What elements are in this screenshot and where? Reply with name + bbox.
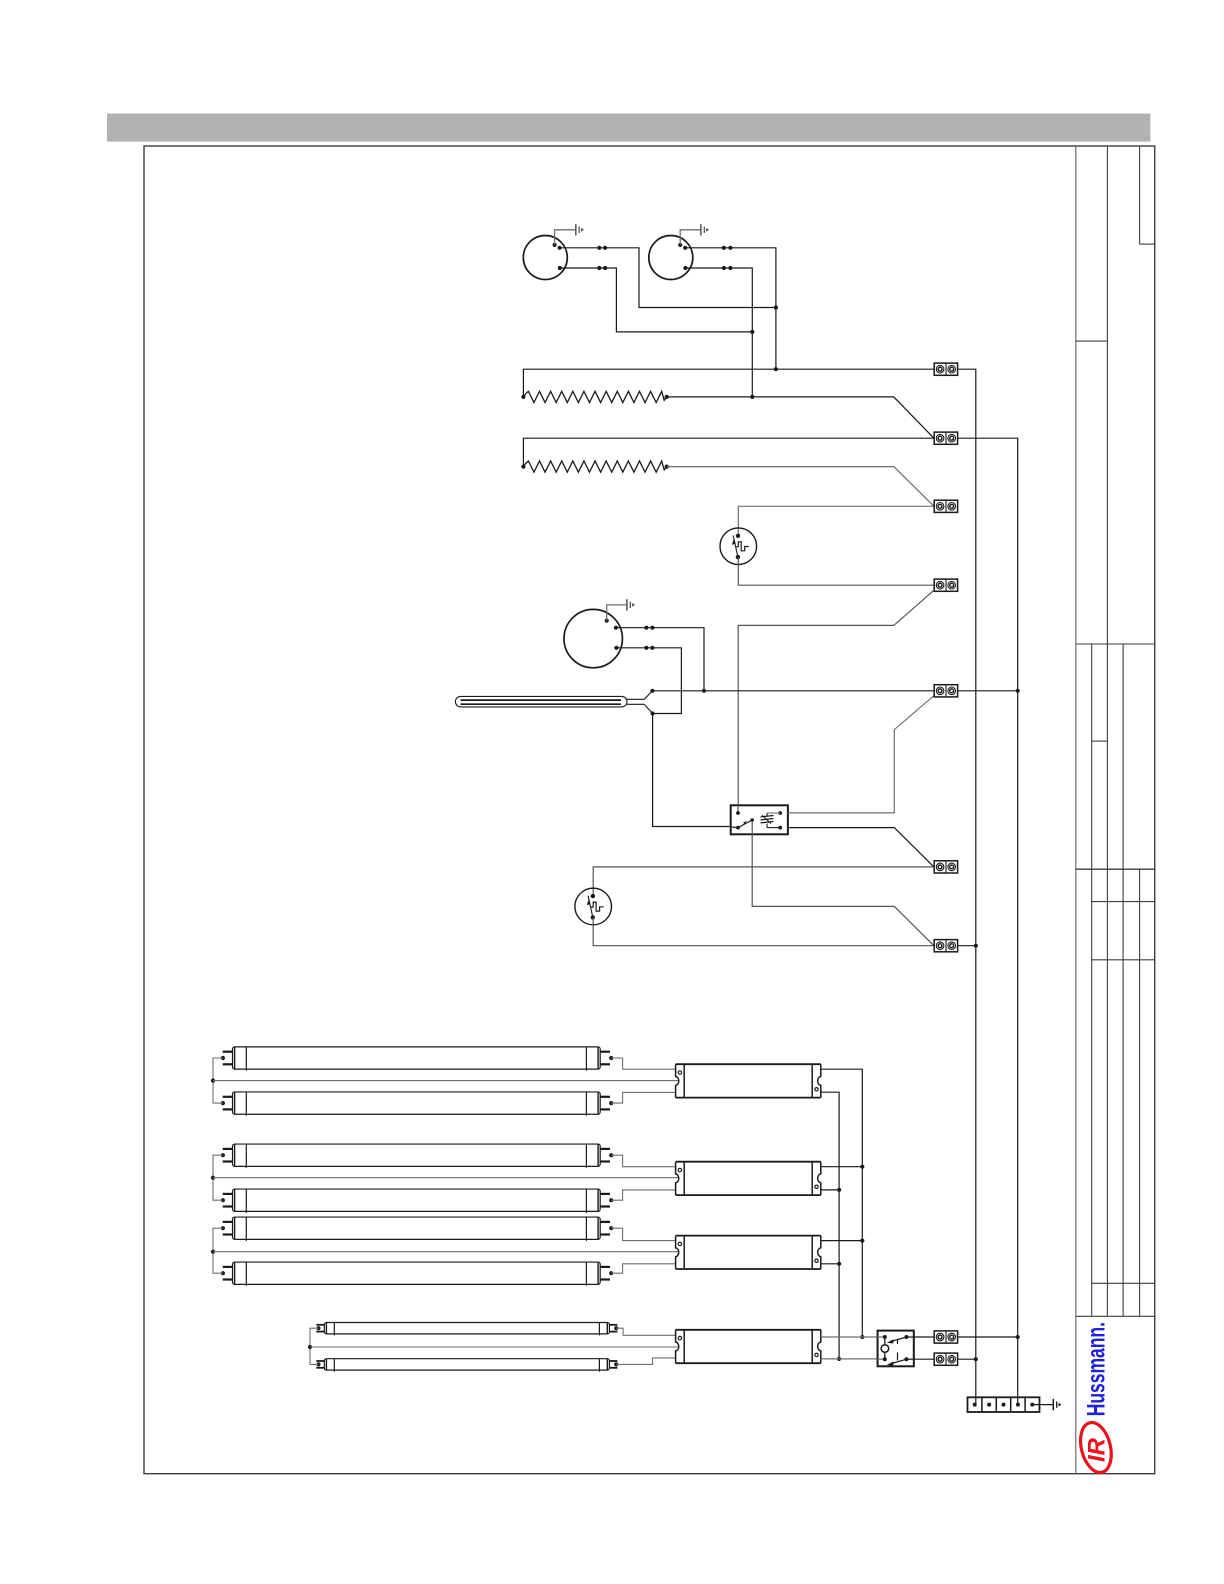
wire lamp pair 3 left bus to ballast 3 xyxy=(213,1251,678,1253)
wire lamp pair 2 left bus to ballast 2 xyxy=(213,1177,678,1179)
wire lamp 4 right to ballast 2 xyxy=(609,1190,675,1202)
wire M1 line1 xyxy=(558,246,776,308)
wire lamp pair 4 left jumper xyxy=(308,1326,321,1366)
ground symbol M3 xyxy=(627,599,635,610)
wire ballast B2 neutral xyxy=(821,1189,839,1191)
wire lamp 2 right to ballast 1 xyxy=(609,1092,675,1105)
relay K1 xyxy=(731,805,788,834)
bus wire B (TB2 feed) xyxy=(958,438,1020,1404)
fan motor M1 xyxy=(523,236,567,280)
wire M3 line2 xyxy=(614,646,681,714)
wire TB7 to bus A xyxy=(958,945,976,947)
wire K1 switch to TB7 xyxy=(752,822,934,946)
drawing border frame xyxy=(144,146,1155,1474)
ground symbol strip xyxy=(1053,1399,1061,1410)
fluorescent lamp LT1 xyxy=(223,1047,610,1071)
bus wire A (TB1 feed) xyxy=(958,369,978,1404)
wire TB9 to bus A xyxy=(958,1358,976,1360)
wire M2 line2 xyxy=(683,266,754,399)
wire TB8 to bus B xyxy=(958,1336,1018,1338)
wire M2 line1 xyxy=(683,246,778,372)
wire M1 line2 xyxy=(558,266,753,332)
wire M3 line1 xyxy=(614,626,706,693)
svg-text:Hussmann.: Hussmann. xyxy=(1081,1322,1110,1416)
wire K2 to TB8 xyxy=(914,1336,934,1338)
heater R1 element xyxy=(521,391,669,402)
wire lamp pair 4 left bus to ballast B4 xyxy=(310,1346,678,1348)
fluorescent lamp LT7 xyxy=(316,1323,617,1336)
wire sensor node to relay K1 switch xyxy=(653,714,731,827)
ground wire strip xyxy=(1032,1404,1053,1406)
thermostat T1 xyxy=(720,528,757,565)
ground symbol M2 xyxy=(701,224,709,235)
wire ballast B4 to relay K2 top xyxy=(821,1336,878,1338)
terminal block TB7 xyxy=(934,940,957,952)
wire TB5 to bus B xyxy=(958,689,1020,693)
wire T1 to TB3 xyxy=(738,506,934,536)
ground symbol M1 xyxy=(576,224,584,235)
wire ballast B1 to hot bus xyxy=(821,1069,865,1339)
heater R1 supply wire xyxy=(523,369,934,397)
terminal block TB1 xyxy=(934,363,957,375)
terminal block TB3 xyxy=(934,500,957,512)
heater R2 supply wire xyxy=(523,438,934,466)
wire T2 to TB7 xyxy=(593,917,934,945)
wire TB5 to K1 coil xyxy=(788,696,934,813)
wire lamp pair 2 left jumper xyxy=(211,1153,225,1202)
title block grid (rotated) xyxy=(1076,146,1155,1474)
temperature sensor bulb xyxy=(455,696,627,707)
fluorescent lamp LT6 xyxy=(223,1262,610,1286)
wire ballast B2 hot xyxy=(821,1166,863,1168)
ground wire M3 xyxy=(605,605,627,623)
wire lamp pair 3 left jumper xyxy=(211,1226,225,1275)
Hussmann logo text (rotated) xyxy=(1081,1322,1110,1416)
wire R2 to TB3 xyxy=(667,467,934,507)
wire R1 to TB2 xyxy=(667,397,934,438)
ballast B3 xyxy=(676,1236,821,1269)
wire lamp 3 right to ballast 2 xyxy=(609,1153,675,1167)
wire lamp pair 1 left bus to ballast 1 xyxy=(213,1080,678,1082)
ballast B2 xyxy=(676,1162,821,1195)
wire ballast B1 to neutral bus xyxy=(821,1092,841,1361)
wire ballast B3 neutral xyxy=(821,1263,839,1265)
terminal strip X1 xyxy=(968,1397,1040,1412)
wire ballast B4 to relay K2 bottom xyxy=(821,1358,878,1360)
fluorescent lamp LT2 xyxy=(223,1092,610,1116)
wire lamp LT7 right to ballast B4 xyxy=(614,1326,675,1335)
terminal block TB9 xyxy=(934,1353,957,1365)
fluorescent lamp LT8 xyxy=(316,1359,617,1372)
sensor top lead xyxy=(627,689,655,700)
wire lamp 5 right to ballast 3 xyxy=(609,1226,675,1241)
wire lamp 1 right to ballast 1 xyxy=(609,1056,675,1069)
ballast B1 xyxy=(676,1064,821,1097)
wire TB4 to relay K1 coil node xyxy=(738,590,934,813)
terminal block TB6 xyxy=(934,861,957,873)
terminal block TB5 xyxy=(934,685,957,697)
svg-text:IR: IR xyxy=(1084,1437,1111,1462)
thermostat T2 xyxy=(575,888,612,925)
ground wire M1 xyxy=(553,230,576,247)
relay K2 xyxy=(878,1331,914,1367)
wire T2 to TB6 xyxy=(593,867,934,896)
wire K1 to TB6 xyxy=(788,828,934,867)
fluorescent lamp LT5 xyxy=(223,1217,610,1241)
wire sensor node to TB5 xyxy=(652,690,934,692)
terminal block TB2 xyxy=(934,432,957,444)
page header gray bar xyxy=(107,114,1150,142)
wire K2 to TB9 xyxy=(914,1358,934,1360)
wire lamp pair 1 left jumper xyxy=(211,1056,225,1105)
sensor bottom lead xyxy=(627,704,655,715)
Ingersoll Rand IR logo xyxy=(1076,1419,1116,1476)
fluorescent lamp LT4 xyxy=(223,1189,610,1213)
fan motor M3 xyxy=(564,609,622,667)
wire lamp LT8 right to ballast B4 xyxy=(614,1358,675,1367)
wire ballast B3 hot xyxy=(821,1240,863,1242)
heater R2 element xyxy=(521,461,669,472)
wire lamp 6 right to ballast 3 xyxy=(609,1264,675,1275)
terminal block TB4 xyxy=(934,579,957,591)
wire T1 to TB4 xyxy=(738,557,934,585)
fan motor M2 xyxy=(649,236,693,280)
ballast B4 xyxy=(676,1330,821,1363)
fluorescent lamp LT3 xyxy=(223,1144,610,1168)
terminal block TB8 xyxy=(934,1331,957,1343)
ground wire M2 xyxy=(678,230,701,247)
